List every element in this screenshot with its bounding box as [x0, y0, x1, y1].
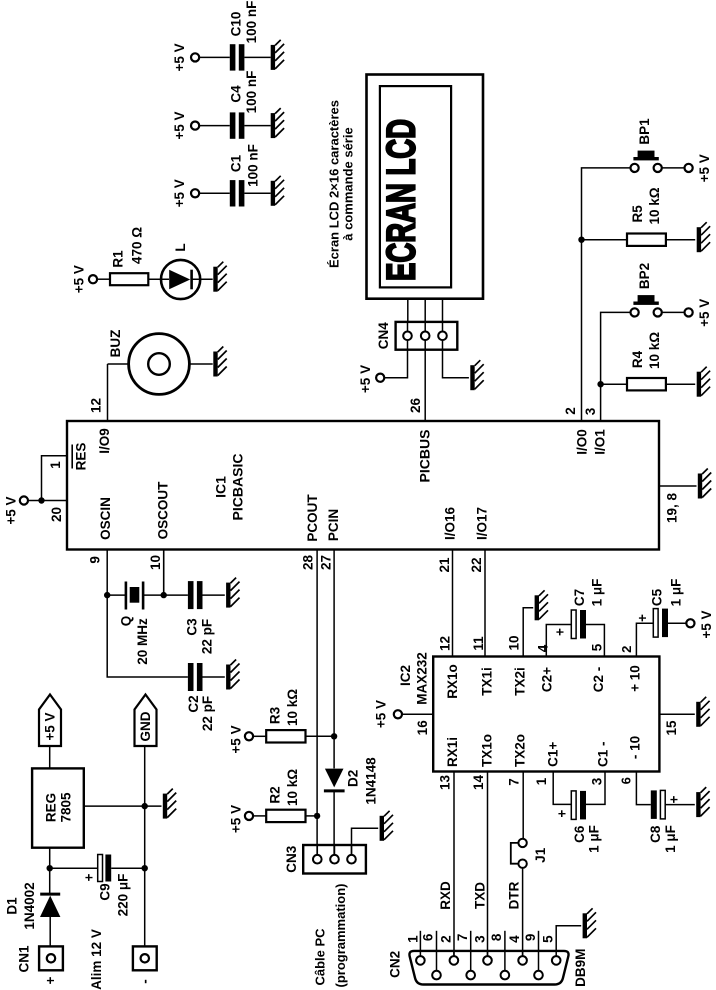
svg-text:DTR: DTR: [507, 881, 522, 909]
CN2 pin ticks and numbers: [405, 931, 555, 971]
svg-text:- 10: - 10: [628, 736, 643, 759]
diode D1 1N4002: [4, 882, 60, 946]
resistor R4: [601, 332, 696, 391]
svg-text:+5 V: +5 V: [228, 805, 243, 833]
svg-text:L: L: [173, 243, 188, 251]
svg-text:+5 V: +5 V: [358, 365, 373, 393]
resistor R1: [71, 227, 169, 293]
ground (IC2 pin10): [537, 590, 548, 620]
svg-text:5: 5: [590, 643, 605, 651]
svg-text:1 μF: 1 μF: [587, 825, 602, 853]
LED L: [161, 243, 213, 299]
connector minus terminal: [133, 946, 157, 983]
label I/O0 / pin 2 net: [563, 168, 631, 455]
svg-text:Q: Q: [118, 616, 133, 627]
svg-text:TX2o: TX2o: [513, 734, 528, 767]
svg-text:4: 4: [535, 644, 550, 652]
svg-text:C3: C3: [185, 618, 200, 636]
svg-text:I/O0: I/O0: [574, 429, 589, 455]
ground (C8): [698, 787, 709, 817]
ground (C2): [228, 660, 239, 690]
svg-text:21: 21: [437, 557, 452, 573]
svg-text:PICBUS: PICBUS: [417, 430, 433, 483]
svg-text:C6: C6: [572, 825, 587, 843]
label PCIN / pin 27 wire: [318, 509, 341, 769]
ground (C1): [273, 176, 284, 206]
svg-text:C1: C1: [228, 154, 243, 172]
svg-text:+: +: [43, 976, 58, 984]
svg-text:TX1o: TX1o: [479, 734, 494, 767]
svg-text:-: -: [137, 979, 152, 984]
svg-text:3: 3: [473, 935, 488, 943]
capacitor C10: [172, 1, 271, 72]
svg-text:D1: D1: [4, 897, 19, 915]
svg-text:C10: C10: [228, 12, 243, 37]
svg-text:C1 -: C1 -: [596, 741, 611, 767]
capacitor C5: [619, 579, 714, 692]
svg-text:100 nF: 100 nF: [244, 1, 259, 44]
ground (C3): [228, 578, 239, 608]
svg-text:+5 V: +5 V: [697, 299, 712, 327]
svg-text:R5: R5: [630, 205, 645, 223]
svg-text:+5 V: +5 V: [697, 154, 712, 182]
label RX1o pin 12: [438, 636, 460, 699]
svg-text:1 μF: 1 μF: [663, 825, 678, 853]
svg-text:C7: C7: [572, 589, 587, 606]
svg-text:+: +: [81, 873, 96, 881]
svg-text:DB9M: DB9M: [573, 949, 588, 987]
svg-text:C4: C4: [228, 85, 243, 103]
wire CN2 pin 5 to ground: [556, 926, 581, 956]
svg-text:+5 V: +5 V: [172, 112, 187, 140]
svg-text:GND: GND: [138, 711, 153, 741]
ground (CN2): [585, 908, 596, 938]
svg-text:CN3: CN3: [284, 845, 299, 872]
svg-text:19, 8: 19, 8: [664, 492, 679, 523]
wire pin 10 TX2i to ground: [506, 608, 533, 696]
label OSCOUT / pin 10: [148, 481, 171, 595]
ground (IC2 pin15): [698, 697, 709, 727]
svg-text:PCOUT: PCOUT: [305, 494, 320, 542]
svg-text:D2: D2: [346, 770, 361, 787]
svg-text:28: 28: [300, 555, 315, 571]
capacitor C3: [164, 581, 225, 654]
connector CN3: [284, 828, 378, 873]
svg-text:22 pF: 22 pF: [199, 619, 214, 654]
label Ecran LCD 2x16 caracteres: [326, 100, 355, 268]
ground (R5): [699, 222, 710, 252]
svg-text:3: 3: [583, 407, 598, 415]
svg-text:Alim 12 V: Alim 12 V: [89, 929, 104, 990]
ground (BUZ): [216, 347, 227, 377]
svg-text:CN4: CN4: [376, 322, 391, 349]
label PICBUS / pin 26 wire: [408, 350, 432, 483]
wire pin 1 RES: [42, 443, 89, 501]
svg-text:9: 9: [523, 934, 538, 942]
svg-text:14: 14: [471, 775, 486, 791]
svg-text:IC2: IC2: [398, 665, 413, 686]
svg-text:10: 10: [148, 555, 163, 570]
svg-text:12: 12: [88, 398, 103, 413]
svg-text:+: +: [635, 614, 650, 622]
svg-text:R4: R4: [630, 350, 645, 368]
svg-text:2: 2: [563, 407, 578, 415]
svg-text:11: 11: [471, 636, 486, 651]
svg-text:26: 26: [408, 398, 423, 414]
svg-text:C9: C9: [97, 883, 112, 900]
svg-text:ECRAN LCD: ECRAN LCD: [380, 119, 424, 281]
svg-text:10 kΩ: 10 kΩ: [647, 187, 662, 224]
svg-text:RX1i: RX1i: [445, 737, 460, 767]
svg-text:2: 2: [619, 646, 634, 653]
svg-text:3: 3: [590, 777, 605, 785]
resistor R2: [228, 769, 320, 833]
svg-text:I/O9: I/O9: [97, 428, 112, 454]
wire pin 13 RXD net: [438, 737, 460, 956]
crystal Q: [104, 550, 167, 665]
svg-text:220 μF: 220 μF: [115, 874, 130, 917]
LCD module U-LCD: [367, 75, 484, 299]
svg-text:6: 6: [421, 933, 436, 941]
svg-text:1: 1: [48, 461, 63, 469]
svg-text:2: 2: [439, 935, 454, 943]
label PCOUT / pin 28 wire: [300, 494, 320, 855]
connector CN2 DB9M body: [388, 949, 589, 987]
svg-text:20: 20: [49, 507, 64, 522]
svg-text:C5: C5: [650, 588, 665, 606]
svg-text:TX2i: TX2i: [513, 667, 528, 696]
svg-text:+5 V: +5 V: [172, 43, 187, 71]
capacitor C6: [534, 741, 611, 852]
svg-text:6: 6: [619, 777, 634, 784]
svg-text:1N4002: 1N4002: [22, 882, 37, 929]
svg-text:1N4148: 1N4148: [364, 757, 379, 805]
push button BP1: [631, 118, 713, 182]
capacitor C7: [535, 579, 606, 693]
svg-text:+: +: [554, 810, 569, 818]
wire pin 7 TX2o to J1: [506, 734, 527, 839]
svg-text:22 pF: 22 pF: [200, 696, 215, 731]
label I/O17 / pin 22 wire: [469, 507, 489, 657]
svg-text:Écran LCD 2×16 caractères: Écran LCD 2×16 caractères: [326, 100, 341, 268]
wire CN4 pin3 to ground: [443, 350, 469, 378]
svg-text:4: 4: [507, 935, 522, 943]
svg-text:I/O17: I/O17: [474, 507, 489, 540]
ground (LED): [216, 262, 227, 292]
wire pins 19,8 to ground: [659, 486, 697, 523]
svg-text:27: 27: [318, 555, 333, 570]
svg-text:TXD: TXD: [473, 882, 488, 909]
svg-text:RES: RES: [73, 443, 88, 471]
svg-text:BP1: BP1: [637, 118, 652, 145]
svg-text:7: 7: [455, 934, 470, 942]
svg-text:15: 15: [664, 720, 679, 736]
svg-text:C2 -: C2 -: [591, 667, 606, 693]
svg-text:7805: 7805: [59, 792, 74, 823]
svg-text:470 Ω: 470 Ω: [129, 227, 144, 264]
wire CN4 pin1 to +5V: [358, 350, 408, 393]
connector CN1: [16, 945, 63, 984]
ground (REG): [165, 789, 176, 819]
svg-text:I/O1: I/O1: [592, 429, 607, 455]
diode D2 1N4148: [324, 757, 379, 855]
svg-text:TX1i: TX1i: [479, 667, 494, 696]
svg-text:7: 7: [506, 778, 521, 786]
label TX1i pin 11: [471, 636, 494, 696]
svg-text:RX1o: RX1o: [445, 664, 460, 699]
wire pin 16 +5V: [374, 700, 434, 735]
ground (C10): [273, 40, 284, 70]
connector CN4: [376, 322, 458, 350]
ground (R4): [699, 367, 710, 397]
resistor R3: [228, 689, 337, 754]
svg-text:+ 10: + 10: [628, 665, 643, 692]
svg-text:MAX232: MAX232: [415, 652, 430, 705]
svg-text:20 MHz: 20 MHz: [135, 618, 150, 665]
svg-text:RXD: RXD: [438, 881, 453, 910]
svg-text:PCIN: PCIN: [326, 509, 341, 541]
svg-text:100 nF: 100 nF: [244, 71, 259, 114]
svg-text:100 nF: 100 nF: [245, 144, 260, 187]
svg-text:1 μF: 1 μF: [589, 579, 604, 607]
op-amp IC2 MAX232 body: [398, 652, 659, 771]
svg-text:+5 V: +5 V: [3, 497, 18, 525]
svg-text:9: 9: [87, 556, 102, 564]
svg-text:10: 10: [506, 635, 521, 650]
node GND flag: [135, 695, 157, 947]
svg-text:+5 V: +5 V: [71, 265, 86, 293]
svg-text:10 kΩ: 10 kΩ: [285, 769, 300, 806]
svg-text:13: 13: [438, 775, 453, 791]
svg-text:REG: REG: [44, 793, 59, 822]
svg-text:+5 V: +5 V: [699, 610, 714, 638]
node +5V flag: [39, 695, 61, 769]
label Cable PC (programmation): [313, 884, 349, 988]
label I/O16 / pin 21 wire: [437, 507, 458, 657]
svg-text:16: 16: [415, 720, 430, 736]
wire pin 15 to ground: [659, 714, 694, 735]
ground (C4): [273, 108, 284, 138]
svg-text:1 μF: 1 μF: [669, 579, 684, 607]
svg-text:+: +: [666, 795, 681, 803]
svg-text:5: 5: [541, 935, 556, 943]
svg-text:1: 1: [534, 777, 549, 785]
svg-text:CN2: CN2: [388, 951, 403, 978]
capacitor C4: [172, 71, 271, 140]
svg-text:R3: R3: [267, 706, 282, 724]
regulator REG 7805: [32, 768, 161, 894]
svg-text:OSCOUT: OSCOUT: [156, 481, 171, 540]
ground (CN3): [382, 811, 393, 841]
capacitor C8: [619, 736, 695, 853]
svg-text:+5 V: +5 V: [43, 712, 58, 740]
capacitor C9: [50, 855, 145, 917]
wire pin 20 +5V: [3, 496, 67, 524]
svg-text:IC1: IC1: [213, 476, 229, 498]
svg-text:10 kΩ: 10 kΩ: [285, 689, 300, 726]
svg-text:BP2: BP2: [637, 263, 652, 289]
svg-text:R1: R1: [110, 250, 125, 268]
svg-text:12: 12: [438, 636, 453, 651]
op-amp IC1 PICBASIC body: [67, 421, 659, 550]
capacitor C1: [172, 144, 271, 207]
svg-text:R2: R2: [267, 786, 282, 803]
svg-text:8: 8: [489, 933, 504, 941]
ground (19,8): [700, 469, 711, 499]
label I/O1 / pin 3 net: [583, 312, 631, 454]
svg-text:+5 V: +5 V: [228, 725, 243, 753]
resistor R5: [582, 187, 696, 246]
svg-text:C2: C2: [186, 695, 201, 712]
svg-text:+5 V: +5 V: [374, 700, 389, 728]
svg-text:BUZ: BUZ: [108, 330, 123, 358]
svg-text:PICBASIC: PICBASIC: [229, 454, 245, 521]
svg-text:22: 22: [469, 557, 484, 572]
svg-text:I/O16: I/O16: [443, 507, 458, 541]
buzzer BUZ: [88, 330, 212, 421]
svg-text:J1: J1: [533, 847, 548, 863]
push button BP2: [631, 263, 713, 327]
svg-text:C8: C8: [648, 825, 663, 843]
wire pin 14 TXD net: [471, 734, 494, 956]
svg-text:+5 V: +5 V: [172, 179, 187, 207]
svg-text:C2+: C2+: [539, 667, 554, 692]
capacitor C2: [107, 595, 225, 731]
wire LCD to CN4: [408, 299, 443, 322]
svg-text:+: +: [553, 628, 568, 636]
svg-text:10 kΩ: 10 kΩ: [647, 332, 662, 369]
svg-text:OSCIN: OSCIN: [98, 497, 113, 540]
jumper J1: [507, 839, 548, 956]
svg-text:1: 1: [405, 935, 420, 943]
ground (CN4): [473, 360, 484, 390]
svg-text:Câble PC: Câble PC: [313, 928, 328, 986]
svg-text:CN1: CN1: [16, 945, 31, 972]
svg-text:à commande série: à commande série: [341, 127, 356, 240]
svg-text:C1+: C1+: [545, 742, 560, 767]
label OSCIN / pin 9: [87, 497, 113, 595]
svg-text:(programmation): (programmation): [333, 884, 348, 988]
